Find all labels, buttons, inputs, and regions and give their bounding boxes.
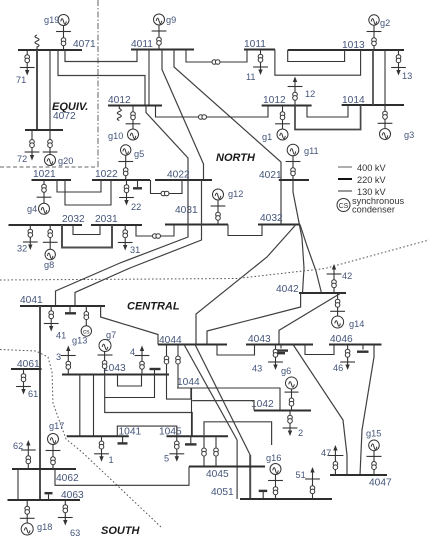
- svg-text:12: 12: [305, 89, 315, 99]
- wire 4011-1011: [186, 50, 247, 63]
- bus 4062: [12, 468, 76, 470]
- svg-text:4046: 4046: [330, 334, 353, 345]
- svg-text:g4: g4: [27, 204, 37, 214]
- shunt capacitor at bus 4041: [69, 306, 71, 312]
- line 4011-4012: [148, 50, 150, 106]
- line 1021-1022 circuit 1: [57, 180, 101, 192]
- bus 4072: [25, 129, 63, 131]
- svg-text:NORTH: NORTH: [216, 152, 256, 164]
- bus 4022: [155, 179, 212, 181]
- svg-text:1044: 1044: [177, 377, 200, 388]
- svg-text:1041: 1041: [119, 427, 142, 438]
- shunt reactor at bus 4012: [117, 106, 121, 121]
- transformer 4011-1011: [212, 60, 220, 65]
- line 4043-4044: [217, 345, 255, 356]
- svg-text:3: 3: [56, 352, 61, 362]
- generator g14: [337, 293, 339, 316]
- svg-text:4011: 4011: [131, 39, 153, 50]
- bus 1042: [254, 410, 311, 412]
- border EQUIV region dashed south: [0, 166, 98, 168]
- line 1043-1041 circuit 1: [79, 375, 81, 437]
- generator g8: [49, 225, 51, 250]
- svg-text:CS: CS: [339, 203, 349, 210]
- bus 4021: [279, 179, 309, 181]
- svg-text:4032: 4032: [260, 213, 283, 224]
- shunt at bus 4063: [48, 495, 50, 501]
- svg-text:1021: 1021: [33, 169, 56, 180]
- svg-text:condenser: condenser: [352, 205, 395, 215]
- svg-text:4042: 4042: [276, 284, 299, 295]
- bus 4044: [158, 344, 227, 346]
- svg-text:4071: 4071: [73, 39, 96, 50]
- svg-text:CENTRAL: CENTRAL: [127, 301, 180, 313]
- generator g11: [292, 156, 294, 181]
- load 4: [141, 350, 143, 375]
- line 1021-1022 circuit 2: [65, 180, 111, 205]
- svg-text:4031: 4031: [175, 205, 198, 216]
- bus 4061: [11, 368, 42, 370]
- generator g17: [52, 445, 54, 470]
- bus 1011: [244, 49, 275, 51]
- bus 1012: [262, 105, 312, 107]
- generator g6: [291, 389, 293, 411]
- line 1012-1014 circuit 1: [307, 105, 348, 117]
- bus 1021: [32, 179, 72, 181]
- load 31: [124, 225, 126, 246]
- wire 1042-1045: [192, 401, 254, 411]
- bus 1022: [92, 179, 150, 181]
- wire 4012-1012: [156, 106, 269, 118]
- load 51: [312, 471, 314, 499]
- bus 4041: [20, 305, 105, 307]
- line 4044-4045 circuit 1: [184, 345, 237, 441]
- svg-text:71: 71: [16, 75, 26, 85]
- load 1: [101, 436, 103, 457]
- line 4022-4031 circuit 2: [201, 180, 203, 225]
- line 4041-4044: [101, 306, 158, 345]
- bus 1043: [62, 374, 169, 376]
- svg-text:g18: g18: [37, 522, 52, 532]
- svg-text:2: 2: [298, 428, 303, 438]
- bus 4046: [329, 344, 382, 346]
- svg-text:4: 4: [130, 347, 135, 357]
- generator g20: [49, 130, 51, 155]
- wire transformer 1022-4022: [151, 180, 183, 194]
- transformer 4045-1045 circuit 2: [215, 436, 217, 466]
- svg-text:4022: 4022: [167, 170, 190, 181]
- svg-text:63: 63: [70, 528, 80, 538]
- legend 130 kV sample: [338, 190, 352, 192]
- load 63: [64, 500, 66, 521]
- bus 4012: [108, 105, 162, 107]
- line 1012-1014 circuit 2: [295, 105, 361, 130]
- generator g9: [158, 25, 160, 50]
- svg-text:SOUTH: SOUTH: [101, 525, 141, 537]
- svg-text:4072: 4072: [53, 111, 76, 122]
- svg-text:g20: g20: [58, 156, 73, 166]
- generator g1: [282, 106, 284, 129]
- generator g5: [125, 156, 127, 181]
- generator g16: [275, 475, 277, 500]
- load 43: [275, 345, 277, 366]
- line 1041-1045 bridge: [117, 426, 177, 436]
- line 1013-1014 circuit 1: [372, 50, 374, 105]
- line 4043-4046: [305, 345, 334, 355]
- svg-text:g2: g2: [380, 18, 390, 28]
- generator g19: [63, 26, 65, 51]
- load 5: [176, 436, 178, 457]
- line 4045-4051 circuit 2: [249, 455, 251, 499]
- svg-text:g17: g17: [49, 421, 64, 431]
- svg-text:220 kV: 220 kV: [357, 175, 386, 185]
- svg-text:4051: 4051: [211, 487, 234, 498]
- svg-text:g15: g15: [366, 429, 381, 439]
- bus 4063: [8, 499, 81, 501]
- svg-text:41: 41: [56, 331, 66, 341]
- svg-text:g8: g8: [44, 260, 54, 270]
- svg-text:g16: g16: [266, 453, 281, 463]
- synchronous condenser g13: [85, 306, 87, 326]
- load 2: [289, 411, 291, 432]
- svg-text:g19: g19: [44, 15, 59, 25]
- svg-text:1011: 1011: [244, 39, 266, 50]
- transformer 1022-4022 symbol: [161, 191, 169, 196]
- line 4031-4041 circuit 1: [56, 225, 189, 307]
- line 2031-2032 circuit 1: [73, 225, 100, 235]
- svg-text:32: 32: [17, 244, 27, 254]
- bus 4032: [258, 224, 300, 226]
- shunt capacitor at bus 4046: [362, 345, 364, 350]
- line 4011-4071: [65, 50, 137, 62]
- generator g3: [384, 105, 386, 128]
- svg-text:g7: g7: [106, 330, 116, 340]
- line 4046-4047: [360, 345, 374, 476]
- line 4011-4022: [162, 50, 204, 181]
- svg-text:4021: 4021: [259, 170, 282, 181]
- svg-text:g14: g14: [349, 319, 364, 329]
- line 4011-4021: [174, 50, 281, 225]
- generator g4: [43, 180, 45, 204]
- bus 1014: [342, 104, 404, 106]
- bus 4031: [165, 224, 228, 226]
- transformer 4045-1045 circuit 1: [203, 436, 205, 466]
- svg-text:1: 1: [109, 455, 114, 465]
- svg-text:4062: 4062: [56, 473, 79, 484]
- svg-text:4041: 4041: [20, 295, 43, 306]
- svg-text:1014: 1014: [342, 95, 365, 106]
- generator g7: [104, 351, 106, 375]
- line 4032-4044: [196, 225, 296, 345]
- line 4071-4072 circuit 2: [49, 50, 51, 130]
- line 4012-4071: [58, 50, 145, 106]
- svg-text:g6: g6: [281, 366, 291, 376]
- load 72: [31, 130, 33, 156]
- load 61: [23, 369, 25, 390]
- shunt at bus 4051: [262, 492, 264, 499]
- bus 2031: [91, 224, 142, 226]
- svg-text:g3: g3: [404, 130, 414, 140]
- shunt at bus 4043: [280, 345, 282, 349]
- bus 1044 and line 1042-1044: [177, 388, 280, 411]
- svg-text:g1: g1: [262, 132, 272, 142]
- line 4042-4044: [207, 293, 301, 345]
- bus 4071: [18, 49, 82, 51]
- border Central-South dotted: [0, 350, 161, 528]
- svg-text:2032: 2032: [62, 214, 85, 225]
- generator g12: [217, 200, 219, 225]
- generator g2: [373, 26, 375, 51]
- line 4044-4045 circuit 2: [195, 345, 250, 456]
- svg-text:31: 31: [130, 245, 140, 255]
- svg-text:4043: 4043: [248, 334, 271, 345]
- wire 1044-1045 column: [191, 388, 193, 436]
- shunt reactor at bus 4071: [35, 35, 39, 50]
- loop under bus 1043: [118, 375, 142, 387]
- transformer 4012-1012: [199, 115, 207, 120]
- svg-text:22: 22: [131, 202, 141, 212]
- border EQUIV region dash-dot east: [97, 0, 99, 167]
- line 1013-1014 circuit 2: [384, 50, 386, 105]
- transformer 2031-4031 symbol: [153, 234, 161, 239]
- load 11: [260, 50, 262, 71]
- svg-text:g10: g10: [108, 131, 123, 141]
- line 4012-4022: [146, 106, 188, 181]
- line 1043-1041 circuit 2: [93, 375, 95, 437]
- svg-text:62: 62: [13, 441, 23, 451]
- line 1011-1013 circuit 1: [288, 50, 345, 62]
- line 4041-4061-4062-4063 spine: [39, 306, 41, 500]
- line 4032-4042: [300, 225, 322, 294]
- generator g18: [26, 500, 28, 523]
- svg-text:11: 11: [246, 72, 256, 82]
- load 42: [333, 269, 335, 294]
- legend synchronous condenser symbol: [337, 199, 350, 212]
- svg-text:4063: 4063: [61, 490, 84, 501]
- shunt capacitor at bus 1043: [154, 369, 156, 375]
- line 2031-2032 circuit 2: [62, 225, 112, 248]
- wire 1043-1045 link: [105, 398, 193, 437]
- border North-Central dotted: [0, 240, 429, 280]
- svg-text:51: 51: [296, 470, 306, 480]
- load 3: [67, 350, 69, 375]
- load 22: [126, 180, 128, 201]
- svg-text:400 kV: 400 kV: [357, 163, 386, 173]
- bus 1041: [67, 435, 129, 437]
- transformer 4044-1044 circuit 1: [167, 345, 191, 400]
- shunt capacitor at bus 1045: [190, 436, 192, 443]
- line 4045-4051 circuit 1: [236, 440, 238, 499]
- load 13: [398, 50, 400, 71]
- svg-text:13: 13: [402, 71, 412, 81]
- svg-text:g13: g13: [72, 336, 87, 346]
- svg-text:g12: g12: [228, 189, 243, 199]
- legend 220 kV sample: [338, 178, 352, 180]
- svg-text:2031: 2031: [95, 214, 118, 225]
- line 1011-1013 circuit 2: [275, 50, 361, 76]
- svg-text:72: 72: [17, 154, 27, 164]
- svg-text:g11: g11: [304, 146, 319, 156]
- line 4043-4047: [293, 345, 347, 476]
- svg-text:61: 61: [28, 389, 38, 399]
- load 71: [26, 50, 28, 71]
- line 4042-4043: [279, 293, 341, 345]
- line 4071-4072 circuit 1: [36, 50, 38, 130]
- bus 1013: [288, 49, 404, 51]
- shunt capacitor at bus 1022: [137, 180, 139, 187]
- svg-text:4047: 4047: [369, 478, 392, 489]
- svg-text:46: 46: [333, 363, 343, 373]
- legend 400 kV sample: [338, 166, 352, 168]
- svg-text:4061: 4061: [17, 359, 40, 370]
- svg-text:43: 43: [252, 364, 262, 374]
- bus 2032: [9, 224, 83, 226]
- svg-text:4012: 4012: [108, 95, 131, 106]
- svg-text:g5: g5: [134, 149, 144, 159]
- shunt capacitor at bus 1041: [122, 436, 124, 442]
- load 32: [29, 225, 31, 246]
- svg-text:47: 47: [321, 448, 331, 458]
- line 4062-4063 circuit 2: [17, 469, 19, 500]
- load 62: [27, 445, 29, 470]
- svg-text:4045: 4045: [206, 469, 229, 480]
- wire transformer 2031-4031: [136, 225, 174, 237]
- wire 1045 east link: [204, 422, 272, 445]
- generator g10: [132, 106, 134, 129]
- svg-text:42: 42: [342, 271, 352, 281]
- wire loop 1043 south: [105, 375, 155, 398]
- bus 1045: [167, 435, 229, 437]
- load 46: [347, 345, 349, 366]
- svg-text:g9: g9: [166, 15, 176, 25]
- generator g15: [373, 450, 375, 475]
- bus 4051: [240, 498, 332, 500]
- line 4031-4032: [228, 225, 262, 236]
- bus 4047: [330, 474, 387, 476]
- bus 4011: [131, 49, 194, 51]
- wire 4045-4062: [55, 467, 189, 486]
- svg-text:1045: 1045: [159, 427, 182, 438]
- load 12: [294, 81, 296, 106]
- svg-text:4044: 4044: [159, 335, 182, 346]
- svg-text:1013: 1013: [342, 40, 365, 51]
- bus 4042: [299, 292, 346, 294]
- load 47: [334, 449, 336, 475]
- load 41: [50, 306, 52, 327]
- bus 4045: [189, 466, 265, 468]
- line 4031-4041 circuit 2: [75, 225, 202, 307]
- line 4022-4031 circuit 1: [187, 180, 189, 225]
- transformer 4044-1044 circuit 2: [177, 345, 179, 389]
- line 4021-4042: [293, 180, 304, 293]
- bus 4043: [246, 344, 313, 346]
- svg-text:1012: 1012: [263, 95, 286, 106]
- svg-text:5: 5: [164, 454, 169, 464]
- svg-text:1022: 1022: [95, 169, 118, 180]
